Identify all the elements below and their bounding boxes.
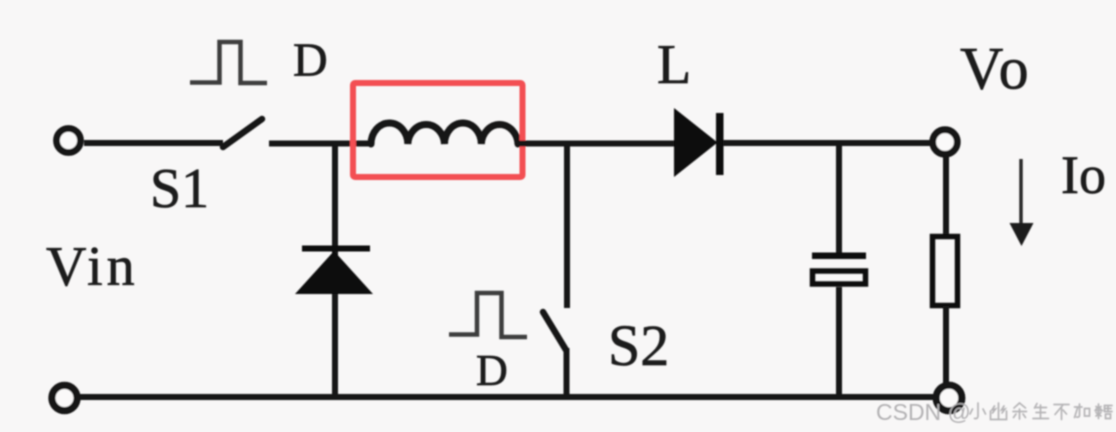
wire S2 branch lower xyxy=(564,348,570,397)
terminal bottom-left xyxy=(52,385,77,410)
svg-text:Io: Io xyxy=(1061,145,1106,205)
svg-text:Vin: Vin xyxy=(46,236,139,298)
diode D1 triangle xyxy=(295,251,373,294)
wire resistor branch lower xyxy=(943,306,949,384)
char sheng xyxy=(1033,404,1049,419)
char bu xyxy=(1054,405,1069,420)
wire resistor branch upper xyxy=(943,155,949,236)
char yu xyxy=(1013,403,1027,419)
char you xyxy=(991,403,1007,420)
terminal top-right Vo xyxy=(933,130,958,155)
watermark CJK glyphs (hand-drawn strokes) xyxy=(970,403,1112,420)
wire diode branch vertical xyxy=(332,143,338,397)
diode D1 cathode bar xyxy=(302,246,370,252)
wire capacitor branch upper xyxy=(836,143,842,254)
pulse symbol near S2 xyxy=(449,293,527,337)
diode D-L cathode bar xyxy=(716,113,724,175)
svg-text:S2: S2 xyxy=(608,313,669,378)
svg-text:S1: S1 xyxy=(150,158,209,220)
switch S1 blade xyxy=(223,119,262,147)
wire capacitor branch lower xyxy=(836,287,842,397)
Io arrow xyxy=(1019,159,1023,226)
char xiao xyxy=(970,403,986,419)
switch S2 blade xyxy=(543,312,566,350)
svg-text:D: D xyxy=(476,346,508,395)
svg-text:CSDN @: CSDN @ xyxy=(876,399,971,425)
terminal top-left xyxy=(57,129,81,153)
red highlight box xyxy=(353,83,523,177)
resistor R load xyxy=(933,237,958,306)
wire top rail inductor to diode xyxy=(518,141,676,147)
pulse symbol near S1 xyxy=(190,42,267,83)
wire top rail diode to terminal xyxy=(723,140,931,146)
wire top rail after S1 xyxy=(269,141,372,147)
wire top rail left segment xyxy=(84,140,223,146)
terminal bottom-right xyxy=(936,385,962,411)
capacitor top plate xyxy=(812,253,866,260)
diode D-L triangle xyxy=(674,108,718,177)
char jia xyxy=(1075,404,1090,418)
svg-text:D: D xyxy=(293,34,328,87)
bottom rail wire xyxy=(80,394,933,400)
svg-text:L: L xyxy=(657,34,691,96)
capacitor bottom plate (hollow) xyxy=(813,271,866,284)
inductor coil xyxy=(371,123,518,144)
svg-text:Vo: Vo xyxy=(960,36,1032,102)
char tang xyxy=(1095,404,1112,419)
wire S2 branch upper xyxy=(564,143,570,308)
